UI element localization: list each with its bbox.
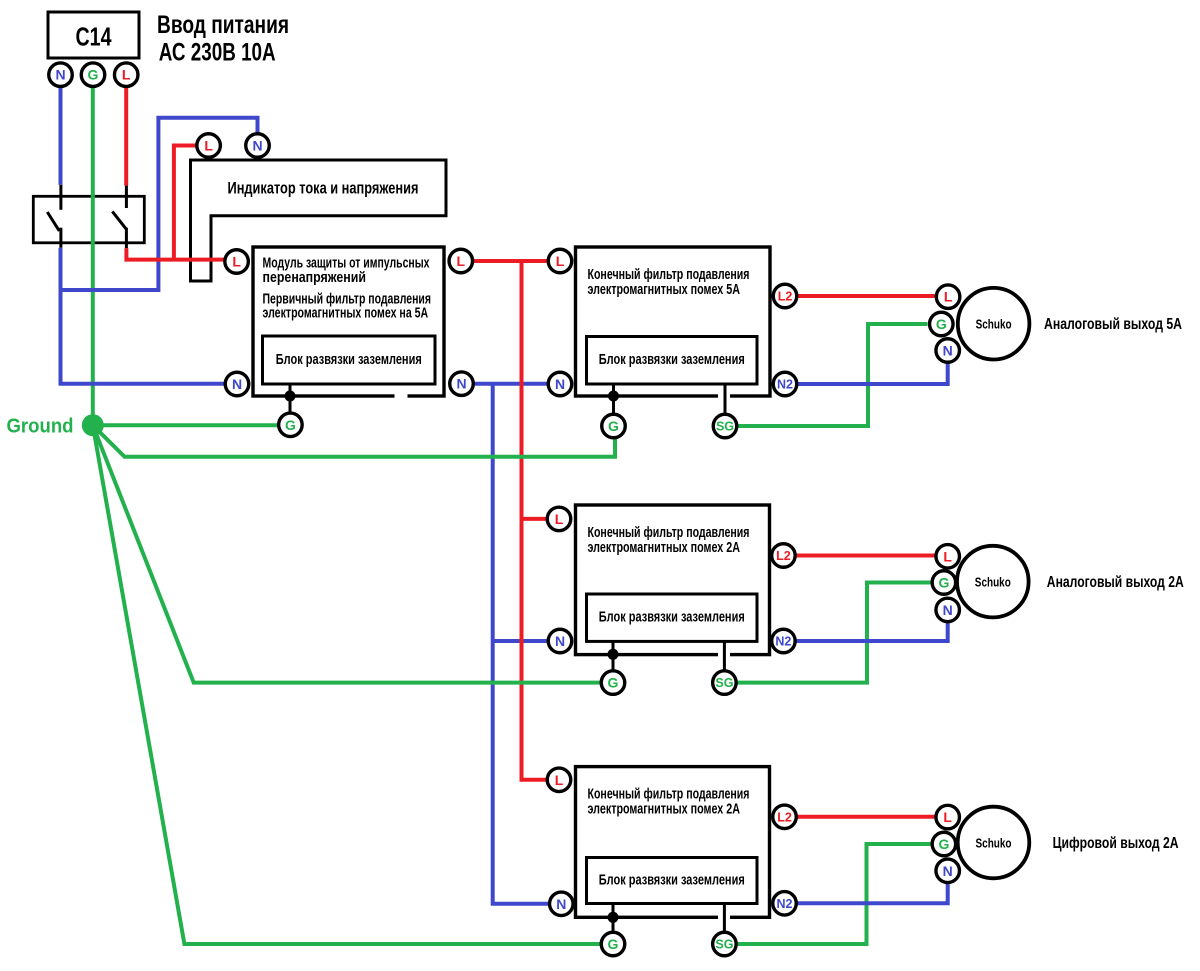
- svg-text:N2: N2: [775, 635, 791, 649]
- junction dot filter U4 ground: [608, 649, 619, 660]
- pin L out of module U2: [449, 249, 473, 273]
- wire SG filter U4 to socket X2 ground: [737, 583, 931, 683]
- connector J1 C14 inlet box: [48, 12, 139, 58]
- wire G from C14 down to ground node: [91, 86, 95, 425]
- filter U3 inner box (Блок развязки заземления): [587, 337, 758, 385]
- pin L2 of filter U3: [773, 284, 797, 308]
- wire L stub to filter U4: [522, 517, 548, 521]
- svg-text:электромагнитных помех 2А: электромагнитных помех 2А: [588, 802, 741, 818]
- svg-text:G: G: [608, 936, 619, 952]
- pin SG of filter U5: [713, 932, 737, 956]
- wire ground to filter U3 G: [93, 425, 615, 457]
- wire L module U2 to filter U3: [473, 259, 549, 263]
- svg-text:N: N: [943, 602, 953, 618]
- indicator U1 box (Индикатор тока и напряжения) with lead tab: [191, 160, 447, 281]
- wire N switch to module U2: [61, 248, 226, 384]
- module U2 ground lead: [289, 384, 292, 414]
- pin N of socket X1: [936, 339, 960, 363]
- svg-text:SG: SG: [716, 420, 734, 434]
- svg-text:G: G: [285, 417, 296, 433]
- pin N2 of filter U5: [773, 892, 797, 916]
- junction dot filter U5 ground: [608, 912, 619, 923]
- wire N from C14 to switch: [59, 86, 63, 184]
- svg-text:электромагнитных помех 2А: электромагнитных помех 2А: [588, 540, 741, 556]
- svg-text:N: N: [252, 138, 262, 154]
- wire N module U2 to filter U3: [473, 382, 548, 386]
- pin L in of filter U4: [547, 507, 571, 531]
- wire L2 filter U3 to socket X1: [797, 294, 937, 298]
- filter U5 box (Конечный фильтр 2А): [576, 767, 770, 921]
- svg-text:Конечный фильтр подавления: Конечный фильтр подавления: [588, 787, 750, 803]
- pin L of socket X3: [936, 805, 960, 829]
- filter U4 ground lead: [612, 641, 615, 670]
- svg-text:L: L: [555, 511, 564, 527]
- svg-text:N: N: [55, 67, 65, 83]
- filter U5 inner box (Блок развязки заземления): [587, 858, 758, 904]
- wire SG filter U3 to socket X1 ground: [737, 324, 928, 426]
- pin N in of filter U4: [548, 629, 572, 653]
- pin L in of filter U3: [548, 249, 572, 273]
- filter U4 box (Конечный фильтр 2А): [576, 505, 770, 658]
- svg-text:G: G: [938, 836, 949, 852]
- svg-text:N: N: [943, 863, 953, 879]
- junction dot module U2 ground: [285, 391, 296, 402]
- svg-text:N: N: [943, 343, 953, 359]
- svg-text:N: N: [555, 376, 565, 392]
- pin N of C14: [49, 63, 73, 87]
- svg-text:G: G: [608, 418, 619, 434]
- svg-text:L2: L2: [777, 810, 792, 824]
- pin G of filter U3: [602, 414, 626, 438]
- svg-text:Индикатор тока и напряжения: Индикатор тока и напряжения: [228, 180, 419, 198]
- wire SG filter U5 to socket X3 ground: [737, 844, 931, 944]
- svg-text:АС 230В 10А: АС 230В 10А: [159, 39, 276, 67]
- pin G of socket X3: [932, 832, 956, 856]
- svg-text:SG: SG: [715, 676, 733, 690]
- svg-text:N: N: [555, 633, 565, 649]
- svg-text:Ввод питания: Ввод питания: [157, 11, 289, 39]
- filter U3 box (Конечный фильтр 5А): [576, 247, 771, 400]
- switch S1 pole 1 (N): [47, 185, 61, 248]
- wire N2 filter U3 to socket X1: [797, 362, 948, 384]
- switch S1 pole 2 (L): [112, 186, 126, 249]
- pin L2 of filter U4: [772, 544, 796, 568]
- socket X3 Schuko body: [958, 807, 1030, 879]
- svg-text:N: N: [232, 376, 242, 392]
- svg-text:N: N: [456, 376, 466, 392]
- svg-text:L: L: [943, 548, 952, 564]
- svg-text:Цифровой выход 2А: Цифровой выход 2А: [1053, 835, 1179, 852]
- svg-text:Блок развязки заземления: Блок развязки заземления: [599, 872, 745, 888]
- svg-text:SG: SG: [715, 938, 733, 952]
- wire L branch to indicator U1: [174, 146, 197, 260]
- svg-text:L: L: [204, 138, 213, 154]
- svg-text:Аналоговый выход 2А: Аналоговый выход 2А: [1047, 574, 1184, 591]
- module U2 box (Модуль защиты от импульсных перенапряжений): [253, 247, 444, 400]
- pin N of socket X3: [936, 859, 960, 883]
- filter U3 signal-ground lead: [724, 384, 727, 414]
- svg-text:G: G: [608, 675, 619, 691]
- svg-text:N: N: [556, 896, 566, 912]
- svg-text:L: L: [555, 772, 564, 788]
- title label: Ввод питания АС 230В 10А: [157, 11, 289, 67]
- svg-text:L: L: [457, 253, 466, 269]
- pin N out of module U2: [450, 372, 474, 396]
- wire L switch to module U2: [126, 248, 225, 259]
- svg-text:электромагнитных помех на 5А: электромагнитных помех на 5А: [263, 306, 429, 322]
- svg-text:Блок развязки заземления: Блок развязки заземления: [599, 610, 745, 626]
- pin L in of filter U5: [547, 768, 571, 792]
- switch S1 double-pole box: [33, 196, 144, 243]
- wire L bus vertical to filter U5: [522, 261, 548, 780]
- svg-text:L: L: [944, 289, 953, 305]
- wire N2 filter U4 to socket X2: [795, 622, 948, 641]
- wire N branch to indicator U1: [61, 118, 258, 290]
- pin G of module U2: [279, 413, 303, 437]
- wire L2 filter U5 to socket X3: [796, 815, 936, 819]
- svg-text:Schuko: Schuko: [976, 318, 1012, 332]
- pin L of socket X2: [936, 545, 960, 569]
- socket X1 Schuko body: [958, 288, 1030, 360]
- junction dot filter U3 ground: [608, 391, 619, 402]
- svg-text:Блок развязки заземления: Блок развязки заземления: [276, 352, 422, 368]
- pin L of socket X1: [936, 285, 960, 309]
- svg-text:L2: L2: [776, 549, 791, 563]
- svg-text:L: L: [943, 809, 952, 825]
- wire ground to filter U4 G: [93, 425, 601, 682]
- svg-text:G: G: [938, 575, 949, 591]
- svg-text:электромагнитных помех 5А: электромагнитных помех 5А: [588, 282, 741, 298]
- pin N of indicator U1: [246, 134, 270, 158]
- svg-text:G: G: [936, 316, 947, 332]
- pin L in of module U2: [225, 250, 249, 274]
- svg-text:Ground: Ground: [7, 416, 74, 438]
- svg-text:L: L: [122, 67, 131, 83]
- pin L of indicator U1: [197, 134, 221, 158]
- svg-text:N2: N2: [777, 378, 793, 392]
- svg-text:Аналоговый выход 5А: Аналоговый выход 5А: [1044, 316, 1182, 333]
- pin SG of filter U4: [713, 671, 737, 695]
- svg-text:G: G: [88, 67, 99, 83]
- pin G of socket X1: [930, 312, 954, 336]
- wire N stub to filter U4: [493, 639, 549, 643]
- wire ground to module U2 G: [93, 423, 278, 427]
- wire N bus vertical to filter U5: [493, 384, 550, 904]
- pin G of C14: [81, 63, 105, 87]
- svg-text:N2: N2: [777, 897, 793, 911]
- svg-text:Schuko: Schuko: [975, 575, 1011, 589]
- svg-text:перенапряжений: перенапряжений: [263, 270, 367, 286]
- pin N2 of filter U3: [773, 372, 797, 396]
- filter U4 inner box (Блок развязки заземления): [587, 594, 758, 641]
- filter U4 signal-ground lead: [723, 641, 726, 670]
- svg-text:L: L: [556, 253, 565, 269]
- pin N in of filter U3: [548, 372, 572, 396]
- filter U5 signal-ground lead: [723, 904, 726, 933]
- svg-text:Конечный фильтр подавления: Конечный фильтр подавления: [588, 525, 750, 541]
- svg-text:L: L: [232, 254, 241, 270]
- svg-text:Schuko: Schuko: [976, 836, 1012, 850]
- filter U5 ground lead: [612, 904, 615, 933]
- module U2 inner box (Блок развязки заземления): [263, 336, 436, 384]
- svg-text:C14: C14: [76, 22, 112, 52]
- pin L2 of filter U5: [773, 805, 797, 829]
- svg-text:Блок развязки заземления: Блок развязки заземления: [599, 352, 745, 368]
- ground node: [7, 414, 104, 437]
- wire L2 filter U4 to socket X2: [795, 554, 936, 558]
- wire ground to filter U5 G: [93, 425, 601, 944]
- pin G of filter U5: [601, 932, 625, 956]
- filter U3 ground lead: [612, 384, 615, 414]
- pin G of filter U4: [601, 671, 625, 695]
- pin G of socket X2: [932, 571, 956, 595]
- pin SG of filter U3: [713, 414, 737, 438]
- wire L from C14 to switch: [124, 86, 128, 185]
- pin N in of module U2: [225, 372, 249, 396]
- wire N2 filter U5 to socket X3: [796, 883, 947, 904]
- svg-text:L2: L2: [778, 290, 793, 304]
- pin N in of filter U5: [550, 892, 574, 916]
- svg-text:Конечный фильтр подавления: Конечный фильтр подавления: [588, 267, 750, 283]
- pin L of C14: [114, 63, 138, 87]
- pin N2 of filter U4: [772, 629, 796, 653]
- socket X2 Schuko body: [957, 546, 1029, 618]
- pin N of socket X2: [936, 598, 960, 622]
